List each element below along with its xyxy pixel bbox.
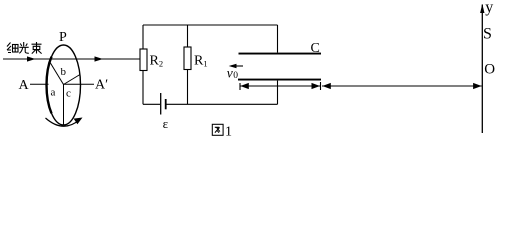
svg-text:O: O	[484, 62, 495, 78]
resistor R1	[184, 47, 191, 70]
sector line center down	[63, 85, 65, 125]
sector line center to upper-left	[50, 62, 64, 85]
light beam line	[3, 58, 141, 60]
dimension line plate-to-screen	[322, 85, 482, 87]
wire R2 top lead	[142, 25, 144, 49]
svg-text:v: v	[227, 66, 233, 81]
label 细光束 (thin light beam) drawn as strokes	[7, 42, 42, 54]
wire top	[143, 24, 278, 26]
disc left rim emphasis	[47, 57, 52, 114]
rotation arrowhead	[74, 118, 83, 125]
beam arrowhead 2	[95, 56, 104, 61]
axis line A left	[30, 83, 49, 85]
wire capacitor bottom lead	[277, 81, 279, 105]
axis line to A' right	[64, 83, 95, 85]
sector line center to upper-right	[64, 75, 81, 85]
resistor R2	[140, 49, 147, 71]
rotation arrow arc	[46, 118, 80, 126]
dimension arrowhead left 2	[322, 83, 331, 89]
svg-text:b: b	[61, 66, 67, 78]
svg-text:a: a	[51, 87, 56, 99]
svg-text:c: c	[66, 88, 71, 100]
disc P ellipse	[47, 45, 81, 125]
wire R1 top lead	[187, 25, 189, 47]
label 图1	[212, 124, 223, 135]
wire R2 bottom lead	[142, 71, 144, 105]
svg-text:C: C	[311, 41, 320, 56]
svg-text:0: 0	[233, 71, 238, 81]
battery short plate	[165, 99, 167, 109]
wire capacitor top lead	[277, 25, 279, 53]
y axis arrowhead	[480, 4, 484, 13]
dimension arrowhead left	[240, 83, 249, 89]
dimension arrowhead right	[312, 83, 321, 89]
wire bottom right	[167, 103, 278, 105]
dimension arrowhead right 2	[473, 83, 482, 89]
svg-text:y: y	[485, 0, 493, 16]
dimension line plates width	[240, 85, 321, 87]
dimension tick left	[239, 83, 241, 90]
svg-text:ε: ε	[163, 116, 169, 131]
wire bottom left	[143, 103, 160, 105]
screen line S	[481, 5, 483, 134]
svg-text:1: 1	[225, 125, 232, 140]
beam arrowhead 1	[27, 56, 36, 61]
capacitor top plate	[239, 53, 322, 55]
v0 arrow	[231, 65, 243, 67]
dimension tick middle	[320, 82, 322, 90]
wire R1 bottom lead	[187, 70, 189, 105]
svg-text:A: A	[19, 78, 30, 93]
capacitor bottom plate	[238, 79, 321, 81]
svg-text:P: P	[59, 30, 67, 45]
battery long plate	[160, 93, 162, 115]
svg-text:A′: A′	[95, 78, 108, 93]
svg-text:S: S	[483, 25, 492, 42]
